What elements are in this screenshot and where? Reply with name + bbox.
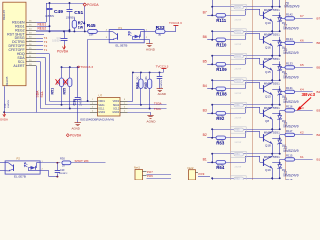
svg-text:R131: R131	[286, 86, 293, 90]
svg-text:Q8: Q8	[265, 119, 269, 123]
svg-text:RELL15: RELL15	[2, 9, 6, 20]
svg-text:P1: P1	[119, 26, 123, 30]
svg-text:Q10: Q10	[265, 21, 271, 25]
svg-text:B2: B2	[203, 133, 207, 137]
svg-text:Q16: Q16	[265, 45, 271, 49]
svg-text:GND2: GND2	[112, 111, 119, 114]
svg-text:AGND: AGND	[72, 126, 80, 130]
svg-text:MMBT5551: MMBT5551	[264, 8, 280, 12]
svg-text:PGVDA: PGVDA	[57, 50, 69, 54]
svg-text:B1: B1	[317, 158, 320, 162]
svg-text:R151: R151	[235, 32, 241, 34]
svg-text:U7: U7	[99, 94, 103, 98]
svg-text:104/16V: 104/16V	[80, 97, 82, 106]
svg-text:R111: R111	[216, 18, 226, 23]
svg-text:GVDA: GVDA	[0, 117, 8, 121]
svg-text:MMBT5551: MMBT5551	[264, 57, 280, 61]
svg-text:TVCC3.3: TVCC3.3	[169, 21, 182, 25]
svg-text:C51: C51	[74, 10, 83, 16]
svg-text:R51: R51	[51, 88, 55, 95]
svg-text:MMBT5551: MMBT5551	[264, 106, 280, 110]
svg-text:7K: 7K	[158, 34, 161, 37]
svg-text:EL.0E7B: EL.0E7B	[14, 174, 26, 178]
svg-text:K7: K7	[300, 14, 304, 18]
svg-text:RELCB: RELCB	[5, 77, 9, 86]
svg-text:K1: K1	[300, 155, 304, 159]
svg-text:C12: C12	[4, 103, 7, 108]
svg-text:24C7W: 24C7W	[235, 20, 242, 22]
svg-text:MMBT5551: MMBT5551	[264, 130, 280, 134]
svg-text:1W: 1W	[78, 26, 84, 30]
svg-text:24C7W: 24C7W	[235, 93, 242, 95]
svg-text:MMBT5551: MMBT5551	[264, 155, 280, 159]
svg-text:R85: R85	[235, 130, 240, 132]
svg-text:R104: R104	[235, 56, 241, 58]
svg-text:ALERT: ALERT	[13, 64, 25, 68]
svg-text:MMSZ4V9: MMSZ4V9	[284, 5, 299, 9]
svg-text:R152: R152	[235, 7, 241, 9]
svg-text:R142: R142	[286, 13, 293, 17]
svg-text:SDA: SDA	[35, 90, 39, 98]
svg-text:R92: R92	[216, 116, 225, 121]
svg-text:MMBT5551: MMBT5551	[264, 32, 280, 36]
svg-text:MMSZ4V9: MMSZ4V9	[284, 51, 299, 55]
svg-text:TSDA: TSDA	[154, 101, 162, 105]
svg-text:R86: R86	[235, 105, 240, 107]
svg-text:MMSZ4V9: MMSZ4V9	[284, 76, 299, 80]
svg-text:R103: R103	[235, 81, 241, 83]
svg-text:R55: R55	[62, 88, 66, 95]
svg-text:10R: 10R	[89, 34, 94, 37]
svg-text:3Bvc3: 3Bvc3	[302, 92, 316, 97]
svg-text:R109: R109	[216, 67, 227, 72]
svg-text:10K: 10K	[145, 76, 148, 81]
svg-text:R117: R117	[286, 129, 293, 133]
svg-text:K4: K4	[300, 88, 304, 92]
svg-text:24C7W: 24C7W	[235, 118, 242, 120]
svg-text:TVCC3.3: TVCC3.3	[80, 65, 93, 69]
svg-text:104/50V: 104/50V	[161, 79, 163, 88]
svg-text:R30: R30	[60, 156, 65, 160]
svg-text:SHUT WK: SHUT WK	[75, 159, 90, 163]
svg-text:R116: R116	[286, 105, 293, 109]
svg-text:SCL2: SCL2	[113, 108, 120, 111]
svg-text:105/50V: 105/50V	[45, 15, 54, 18]
svg-text:TSCL: TSCL	[154, 107, 162, 111]
svg-text:VDD2: VDD2	[113, 100, 120, 103]
svg-text:C36: C36	[73, 99, 77, 106]
svg-text:C29: C29	[60, 169, 65, 172]
svg-text:24C7W: 24C7W	[235, 69, 242, 71]
svg-text:105/50V: 105/50V	[52, 40, 61, 43]
svg-text:B5: B5	[317, 66, 320, 70]
svg-text:R40: R40	[144, 82, 148, 89]
svg-text:R83: R83	[235, 179, 240, 180]
svg-text:Q18: Q18	[265, 143, 271, 147]
svg-text:B6: B6	[203, 35, 207, 39]
svg-text:SDA1: SDA1	[98, 104, 105, 107]
svg-text:24C7W: 24C7W	[235, 142, 242, 144]
svg-text:B3: B3	[203, 109, 207, 113]
svg-text:R33: R33	[156, 25, 165, 31]
svg-text:B3: B3	[317, 109, 320, 113]
svg-text:B4: B4	[317, 90, 320, 94]
svg-text:R110: R110	[216, 43, 227, 48]
svg-text:R134: R134	[286, 37, 293, 41]
svg-text:R115: R115	[286, 154, 293, 158]
svg-text:C49: C49	[54, 9, 63, 15]
svg-text:104/50V: 104/50V	[8, 99, 10, 108]
svg-text:R108: R108	[216, 92, 227, 97]
svg-text:Net1: Net1	[134, 166, 140, 170]
svg-text:VDD1: VDD1	[98, 100, 105, 103]
svg-text:P2: P2	[17, 157, 21, 161]
svg-text:B7: B7	[203, 11, 207, 15]
svg-text:B5: B5	[203, 60, 207, 64]
svg-text:EL.0E7B: EL.0E7B	[116, 43, 128, 47]
svg-text:ISO1540DBR(ACUNVH): ISO1540DBR(ACUNVH)	[80, 118, 114, 122]
svg-text:SCL1: SCL1	[98, 108, 105, 111]
svg-text:K6: K6	[300, 39, 304, 43]
svg-text:R64: R64	[216, 165, 225, 170]
svg-text:R45: R45	[87, 23, 96, 29]
svg-text:10K: 10K	[136, 76, 139, 81]
svg-text:PGVDA: PGVDA	[70, 134, 82, 138]
svg-text:AGND: AGND	[147, 119, 157, 123]
svg-text:REG2: REG2	[38, 27, 47, 31]
svg-text:R63: R63	[216, 141, 225, 146]
svg-text:24C7W: 24C7W	[235, 44, 242, 46]
svg-text:100/NPC: 100/NPC	[59, 173, 68, 175]
svg-text:GND1: GND1	[98, 111, 105, 114]
svg-text:SCL: SCL	[40, 91, 44, 98]
svg-text:R84: R84	[235, 154, 240, 156]
svg-text:Q19: Q19	[265, 168, 271, 172]
svg-text:R44: R44	[135, 82, 139, 89]
svg-text:R118: R118	[286, 178, 293, 180]
svg-text:24C7W: 24C7W	[235, 167, 242, 169]
svg-text:105/50V: 105/50V	[66, 17, 75, 20]
svg-text:AGND: AGND	[158, 92, 166, 96]
svg-text:Net2: Net2	[188, 166, 194, 170]
svg-text:PGVDA: PGVDA	[87, 3, 99, 7]
svg-text:MMSZ4V9: MMSZ4V9	[284, 27, 299, 31]
svg-text:TVCC3.3: TVCC3.3	[156, 64, 169, 68]
svg-text:Q13: Q13	[265, 94, 271, 98]
svg-text:K2: K2	[300, 131, 304, 135]
svg-text:K5: K5	[300, 63, 304, 67]
svg-text:B1: B1	[203, 158, 207, 162]
svg-text:B7: B7	[317, 17, 320, 21]
svg-text:1K: 1K	[62, 164, 65, 167]
svg-text:Q15: Q15	[265, 70, 271, 74]
svg-text:B6: B6	[317, 41, 320, 45]
svg-text:MMBT5551: MMBT5551	[264, 81, 280, 85]
svg-text:SDA2: SDA2	[113, 104, 120, 107]
svg-text:B4: B4	[203, 84, 207, 88]
svg-text:B2: B2	[317, 133, 320, 137]
svg-text:T1: T1	[44, 48, 48, 52]
svg-text:MMBT5551: MMBT5551	[264, 179, 280, 180]
svg-text:AGND: AGND	[146, 47, 156, 51]
svg-text:P2/9: P2/9	[199, 172, 205, 176]
svg-text:R133: R133	[286, 62, 293, 66]
